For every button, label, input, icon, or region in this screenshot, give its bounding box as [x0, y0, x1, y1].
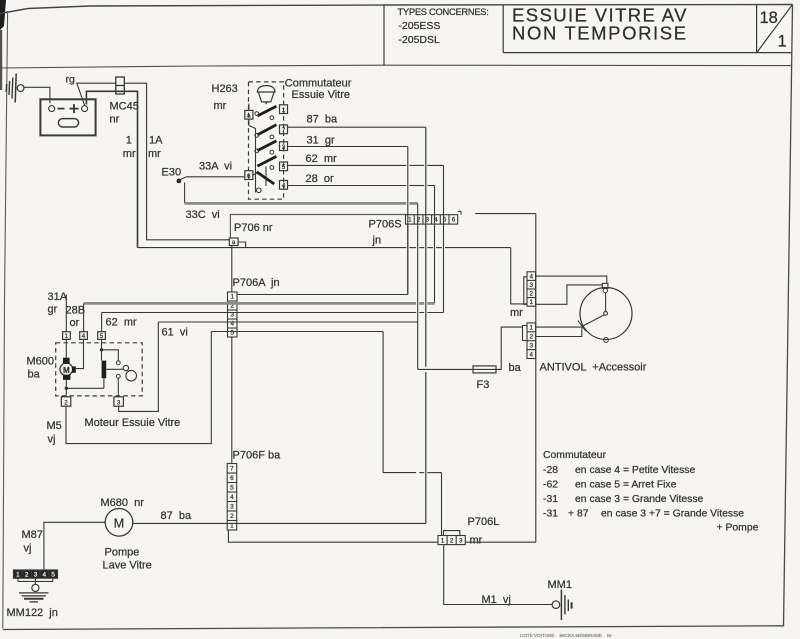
svg-text:3: 3	[425, 217, 429, 224]
wire rg battery plus to MC45	[77, 83, 116, 105]
svg-text:2: 2	[230, 513, 234, 520]
wire 1 mr from battery plus	[86, 91, 137, 247]
wire M1 vj to ground MM1	[444, 545, 552, 605]
wire ignition lower pin2 to pointer	[536, 327, 582, 336]
ground MM122 earth symbol	[32, 584, 39, 591]
wire 62 mr from switch terminal 5	[288, 164, 407, 166]
svg-text:jn: jn	[372, 235, 382, 247]
svg-text:28 or: 28 or	[306, 173, 334, 185]
svg-text:5: 5	[230, 330, 234, 337]
motor M600 pin 3	[114, 397, 124, 406]
svg-text:M5: M5	[47, 420, 62, 432]
ground MM1 earth symbol	[552, 601, 560, 609]
svg-text:gr: gr	[48, 304, 58, 316]
svg-text:Essuie Vitre: Essuie Vitre	[292, 89, 351, 101]
svg-text:3: 3	[34, 571, 38, 578]
connector ignition lower ba	[527, 323, 536, 359]
wire M87 vj pump to ground	[44, 522, 105, 570]
svg-text:en case 3 +7 = Grande Vitesse: en case 3 +7 = Grande Vitesse	[601, 508, 744, 519]
svg-text:NON TEMPORISE: NON TEMPORISE	[512, 23, 688, 44]
connector P706F junction strip	[227, 464, 237, 531]
svg-text:-205ESS: -205ESS	[398, 20, 440, 32]
svg-text:1: 1	[530, 325, 534, 332]
svg-text:M87: M87	[22, 529, 43, 541]
svg-text:5: 5	[282, 164, 286, 171]
connector ignition lower bracket	[523, 326, 528, 341]
wire M5 vj from motor pin2	[66, 332, 211, 444]
wire blade to cam	[106, 368, 123, 370]
svg-text:3: 3	[459, 537, 463, 544]
wire blade common to pin2	[103, 378, 105, 388]
ignition switch ANTIVOL circle	[580, 288, 632, 340]
svg-text:P706A jn: P706A jn	[233, 277, 280, 289]
connector MM122 strip	[14, 570, 58, 578]
wire 31A gr P706A pin1 to P706S pin1	[237, 294, 408, 296]
svg-text:2: 2	[530, 291, 534, 298]
svg-text:2: 2	[530, 333, 534, 340]
svg-text:3: 3	[117, 399, 121, 406]
wire accessory feed 33C riser to fuse F3	[417, 203, 419, 369]
svg-text:mr: mr	[470, 535, 483, 547]
svg-text:31A: 31A	[48, 291, 68, 303]
wire main bus vertical	[535, 214, 537, 543]
connector P706L bracket	[444, 531, 460, 536]
title block box borders	[383, 5, 385, 66]
switch contact blade row 4	[257, 156, 276, 166]
wire 1 mr long run to ignition switch connector	[138, 247, 407, 249]
svg-text:Pompe: Pompe	[105, 547, 140, 559]
svg-text:ANTIVOL +Accessoir: ANTIVOL +Accessoir	[540, 362, 647, 374]
svg-text:5: 5	[100, 333, 104, 340]
switch terminal 4	[280, 181, 288, 190]
svg-text:4: 4	[230, 494, 234, 501]
svg-text:2: 2	[25, 571, 29, 578]
svg-text:-31: -31	[543, 508, 558, 519]
wire P706 output stub	[238, 242, 246, 248]
svg-text:M600: M600	[27, 356, 55, 368]
svg-text:61 vi: 61 vi	[162, 327, 188, 339]
svg-text:4: 4	[43, 571, 47, 578]
ignition switch key pointer	[605, 293, 607, 312]
ignition switch top position circle	[603, 288, 607, 292]
svg-text:31 gr: 31 gr	[307, 135, 335, 147]
connector MC45	[116, 77, 125, 94]
motor M600 dashed enclosure	[56, 343, 143, 396]
svg-text:+ Pompe: + Pompe	[717, 522, 759, 533]
svg-text:rg: rg	[66, 74, 75, 86]
svg-text:-31: -31	[543, 494, 558, 505]
svg-text:M680 nr: M680 nr	[101, 497, 145, 509]
page right border line	[784, 5, 793, 627]
wire 87 ba from switch terminal 7	[288, 126, 426, 128]
wire P706A to P706F riser	[231, 337, 233, 464]
wire M5 vj run P706A pin5 to P706L	[211, 331, 383, 333]
scan edge artifact top-left	[0, 0, 6, 30]
svg-text:28B: 28B	[66, 305, 86, 317]
svg-text:5: 5	[51, 571, 55, 578]
svg-text:COTE VOITURE MICRA MEMBRANE: COTE VOITURE MICRA MEMBRANE Nr	[520, 633, 612, 638]
connector P706A junction strip	[228, 292, 238, 337]
switch internal wire to contacts	[265, 167, 267, 187]
switch H263 dashed enclosure	[249, 82, 284, 199]
svg-text:M: M	[63, 366, 70, 375]
wire 62 mr riser to P706S pin5	[443, 165, 445, 312]
connector P706	[229, 238, 238, 246]
wire P706F to P706L	[228, 530, 438, 542]
svg-text:1: 1	[126, 135, 132, 147]
page top border line	[0, 5, 793, 14]
svg-text:1: 1	[282, 107, 286, 114]
svg-text:6: 6	[230, 475, 234, 482]
svg-text:62 mr: 62 mr	[106, 317, 138, 329]
svg-text:4: 4	[530, 351, 534, 358]
wire 31 gr from switch terminal 3	[288, 146, 408, 148]
inner horizontal rule under title band	[0, 65, 792, 68]
wire 28B riser motor pin4	[83, 303, 85, 331]
wire fuse F3 to ignition connector ba	[496, 327, 523, 369]
svg-text:M1 vj: M1 vj	[482, 594, 511, 606]
battery BB1	[40, 99, 95, 135]
svg-text:4: 4	[530, 273, 534, 280]
svg-text:2: 2	[64, 399, 68, 406]
svg-text:4: 4	[82, 333, 86, 340]
pump M680 motor circle	[105, 509, 133, 537]
svg-text:1: 1	[408, 217, 412, 224]
switch contact blade row 3	[257, 141, 276, 151]
switch terminal 7	[280, 125, 288, 134]
svg-text:P706L: P706L	[468, 516, 500, 528]
wire 28 or riser to P706S pin4	[434, 186, 436, 304]
wire 87 ba pump feed	[133, 522, 426, 524]
switch terminal a	[245, 110, 253, 119]
wire 62 mr run motor to P706S pin5	[102, 312, 417, 314]
svg-text:nr: nr	[110, 114, 120, 126]
connector ignition upper mr	[527, 272, 536, 306]
svg-text:2: 2	[450, 537, 454, 544]
wire 31A riser motor pin1	[65, 295, 67, 332]
svg-text:TYPES CONCERNES:: TYPES CONCERNES:	[398, 6, 489, 17]
svg-text:1A: 1A	[149, 135, 163, 147]
svg-text:3: 3	[282, 144, 286, 151]
svg-text:-205DSL: -205DSL	[398, 34, 440, 46]
svg-text:ba: ba	[28, 369, 41, 381]
switch contact blade row 2	[257, 125, 276, 135]
motor M600 pin 1	[63, 332, 71, 340]
wire motor pin5 branch to park contact	[102, 350, 119, 361]
svg-text:4: 4	[434, 217, 438, 224]
switch contact blade row 5	[257, 172, 275, 184]
switch terminal 6	[245, 171, 253, 180]
page left border line	[3, 11, 8, 629]
wire main bus top	[475, 213, 536, 215]
sheet number box diagonal	[757, 5, 792, 52]
motor park contact to pin3	[116, 374, 120, 378]
svg-text:87 ba: 87 ba	[161, 510, 192, 522]
wire 28 or from switch terminal 4	[288, 185, 407, 187]
ignition switch center pivot	[604, 311, 608, 315]
wire 33A vi	[181, 177, 245, 180]
svg-text:mr: mr	[123, 148, 136, 160]
svg-text:en case 4 = Petite Vitesse: en case 4 = Petite Vitesse	[575, 465, 695, 476]
wire motor pin4 to brush	[76, 339, 84, 368]
svg-text:7: 7	[230, 465, 234, 472]
connector P706L strip	[438, 536, 465, 545]
svg-text:Commutateur: Commutateur	[285, 78, 352, 90]
wire ignition pin4 to switch top	[536, 276, 607, 283]
svg-text:H263: H263	[212, 83, 238, 95]
wire 61 vi from motor pin3	[119, 322, 159, 411]
motor M600 pin 2	[61, 397, 71, 406]
svg-text:Lave Vitre: Lave Vitre	[103, 560, 152, 572]
wire 61 vi run to accessory riser	[158, 321, 417, 323]
svg-text:MC45: MC45	[110, 101, 139, 113]
svg-text:1: 1	[16, 571, 20, 578]
svg-text:1: 1	[230, 294, 234, 301]
motor M600 pin 4	[80, 332, 88, 340]
svg-text:mr: mr	[510, 307, 523, 319]
svg-text:mr: mr	[214, 100, 227, 112]
switch contact pivot circle bottom	[257, 188, 262, 193]
ground MP battery earth symbol	[15, 74, 16, 103]
node E30	[177, 179, 182, 184]
svg-text:vj: vj	[48, 434, 56, 446]
switch contact blade row 1	[257, 106, 276, 116]
svg-text:MM122 jn: MM122 jn	[7, 607, 58, 619]
wire 28B or gray run to P706S pin4	[84, 302, 417, 305]
fuse F3	[473, 366, 496, 373]
svg-text:en case 5 = Arret Fixe: en case 5 = Arret Fixe	[575, 479, 677, 490]
wire ignition lower pin1 to pointer	[536, 326, 582, 328]
svg-text:or: or	[70, 317, 80, 329]
svg-text:mr: mr	[148, 148, 161, 160]
wire motor pin1 to armature	[65, 339, 67, 357]
motor armature symbol	[60, 363, 73, 376]
motor park cam large circle	[126, 370, 137, 381]
svg-text:Commutateur: Commutateur	[543, 450, 606, 461]
svg-text:5: 5	[230, 484, 234, 491]
motor M600 pin 5	[98, 332, 106, 340]
switch terminal 5	[280, 162, 288, 171]
ignition switch bottom position circle	[604, 338, 609, 343]
svg-text:18: 18	[760, 9, 778, 27]
switch terminal 3	[280, 142, 288, 151]
svg-text:87 ba: 87 ba	[307, 114, 338, 126]
svg-text:3: 3	[530, 282, 534, 289]
svg-text:1: 1	[778, 33, 787, 51]
svg-text:-28: -28	[543, 465, 558, 476]
svg-text:P706 nr: P706 nr	[234, 222, 273, 234]
motor park switch blade	[102, 361, 107, 379]
svg-text:E30: E30	[162, 167, 182, 179]
motor park cam small circle	[123, 365, 128, 370]
svg-text:+ 87: + 87	[568, 508, 589, 519]
wire P706 to P706A riser	[231, 246, 233, 293]
wire P706L pin3 to bus	[465, 541, 536, 543]
svg-text:1: 1	[530, 299, 534, 306]
svg-text:Moteur Essuie Vitre: Moteur Essuie Vitre	[85, 417, 181, 429]
wire 87 ba riser to P706S pin3 and pump line	[425, 127, 427, 367]
svg-text:1: 1	[441, 537, 445, 544]
svg-text:5: 5	[443, 217, 447, 224]
svg-text:3: 3	[230, 503, 234, 510]
svg-text:M: M	[114, 516, 124, 530]
wire motor pin5 internal with junction	[101, 339, 103, 360]
svg-text:MM1: MM1	[548, 579, 572, 591]
svg-text:4: 4	[282, 183, 286, 190]
switch internal bus wire	[249, 126, 256, 193]
wire 31 gr riser to P706S pin1	[407, 147, 409, 295]
svg-text:1: 1	[65, 333, 69, 340]
svg-text:P706S: P706S	[369, 219, 402, 231]
wire ignition pin1 to switch top	[536, 285, 603, 304]
svg-text:33A vi: 33A vi	[199, 161, 232, 173]
svg-text:3: 3	[530, 342, 534, 349]
connector P706S junction strip	[406, 215, 458, 224]
svg-text:7: 7	[282, 127, 286, 134]
wire battery negative to ground	[24, 87, 50, 103]
svg-text:6: 6	[247, 173, 251, 180]
svg-text:ba: ba	[509, 362, 522, 374]
page bottom border line	[3, 626, 784, 630]
svg-text:F3: F3	[477, 379, 490, 391]
svg-text:a: a	[247, 112, 251, 119]
switch knob symbol	[257, 86, 275, 92]
svg-text:vj: vj	[24, 543, 32, 555]
switch terminal 1	[280, 105, 288, 114]
wire P706 to P706S junction rail	[230, 215, 407, 239]
ignition switch pointer tick	[578, 321, 586, 331]
connector ignition upper bracket	[524, 277, 527, 305]
wire 62 riser motor pin5	[101, 313, 103, 332]
svg-text:62 mr: 62 mr	[306, 153, 338, 165]
ignition switch top terminal square	[602, 283, 608, 288]
wire 33C vi gray run	[184, 183, 186, 204]
svg-text:P706F ba: P706F ba	[233, 450, 282, 462]
svg-text:6: 6	[452, 217, 456, 224]
svg-text:33C vi: 33C vi	[186, 209, 220, 221]
svg-text:-62: -62	[543, 479, 558, 490]
wire 1A mr from MC45	[124, 83, 229, 240]
svg-text:en case 3 = Grande Vitesse: en case 3 = Grande Vitesse	[575, 494, 704, 505]
ground MM122 bracket	[17, 578, 19, 581]
